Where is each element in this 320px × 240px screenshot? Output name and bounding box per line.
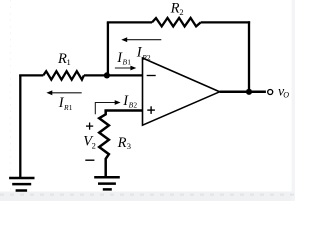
current arrow I_B2 — [95, 100, 120, 114]
label V2 — [83, 133, 96, 150]
wire: top feedback loop left vertical — [107, 22, 109, 75]
wire: top feedback loop horizontal left segment — [107, 21, 152, 23]
voltage V2 minus sign — [85, 159, 94, 161]
label R3 — [117, 135, 131, 151]
wire: top feedback loop right vertical down to output node — [248, 21, 250, 92]
voltage V2 plus sign — [86, 123, 93, 130]
wire: input wire left segment from corner to R1 — [20, 74, 43, 75]
label R2 — [170, 0, 184, 16]
svg-text:O: O — [283, 91, 289, 100]
svg-text:2: 2 — [92, 140, 96, 150]
svg-text:1: 1 — [127, 57, 131, 66]
svg-text:2: 2 — [133, 101, 137, 110]
wire: non-inverting input wire — [106, 111, 143, 113]
current arrow I_R2 — [121, 37, 161, 42]
ground (below R3) — [94, 177, 120, 189]
op-amp inverting input minus sign — [147, 75, 156, 77]
svg-text:3: 3 — [127, 141, 131, 151]
ground (left) — [9, 178, 34, 191]
svg-text:1: 1 — [67, 57, 71, 67]
current arrow I_B1 — [115, 66, 136, 71]
label I_B1 — [116, 50, 131, 66]
op-amp U1 — [143, 58, 220, 125]
wire: input wire from R1 to op-amp inverting input — [84, 74, 143, 76]
label I_R2 — [136, 45, 151, 62]
label R1 — [57, 51, 71, 67]
svg-text:2: 2 — [179, 7, 183, 17]
terminal: open circle output — [268, 90, 273, 95]
node: junction dot at inverting input — [104, 72, 110, 78]
resistor R3 — [99, 111, 109, 178]
current arrow I_R1 — [46, 90, 81, 95]
svg-text:R: R — [57, 51, 67, 67]
svg-text:R: R — [170, 0, 180, 16]
resistor R2 — [152, 18, 201, 27]
wire: top feedback loop horizontal right segment — [201, 21, 250, 23]
wire: left vertical wire down to ground — [19, 75, 21, 177]
op-amp non-inverting input plus sign — [147, 106, 155, 114]
wire: output wire from op-amp to terminal — [220, 91, 266, 94]
svg-text:R: R — [117, 135, 127, 151]
svg-text:1: 1 — [69, 103, 73, 112]
label I_R1 — [58, 95, 73, 112]
node: output junction dot — [246, 89, 252, 95]
label I_B2 — [122, 93, 137, 110]
resistor R1 — [43, 71, 84, 80]
label vO — [278, 85, 289, 100]
